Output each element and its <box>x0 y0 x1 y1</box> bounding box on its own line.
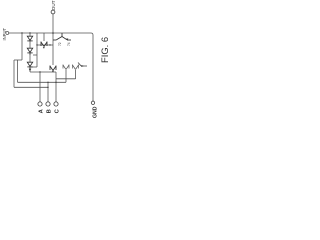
wire x=75.5 stem <box>75 70 77 79</box>
node dot (48,87) <box>47 87 48 88</box>
wire y=45 link <box>37 44 53 46</box>
node IN terminal circle <box>6 32 9 35</box>
svg-text:INPUT: INPUT <box>2 27 7 40</box>
diode D1 <box>27 36 32 41</box>
wire Q2 stem <box>43 33 45 41</box>
node dot (53,33) <box>52 32 54 34</box>
node OUT terminal circle <box>51 10 55 14</box>
wire OUT vertical x=53 <box>52 14 54 65</box>
svg-text:C: C <box>55 108 61 113</box>
wire terminal A vertical <box>39 72 41 102</box>
wire GND lead into circle <box>92 100 94 101</box>
svg-text:B: B <box>47 109 53 113</box>
transistor Q2 <box>41 42 47 49</box>
transistor Q4 on OUT line <box>50 66 56 73</box>
node terminal A circle <box>38 102 42 106</box>
wire top bus y=33 to right rail corner <box>37 33 93 35</box>
wire bus y=72 <box>30 71 56 73</box>
wire diode column stem d <box>29 69 31 72</box>
wire x=66 stem <box>65 70 67 82</box>
node terminal B circle <box>46 102 50 106</box>
svg-text:GND: GND <box>93 106 99 118</box>
wire branch x=22 down <box>21 33 23 60</box>
wire y=67 tick <box>31 66 37 68</box>
transistor Q6 <box>73 65 79 70</box>
node dot (22,33) <box>21 32 22 33</box>
wire bus y=87 <box>14 86 48 88</box>
wire diode column stem a <box>29 33 31 36</box>
transistor Q1 <box>27 62 32 71</box>
transistor Q3 top center <box>53 33 71 41</box>
wire x=37 branch down <box>36 33 38 67</box>
node GND terminal circle <box>91 101 94 104</box>
diode D2 <box>27 48 32 55</box>
node dot (30,33) <box>29 32 30 33</box>
svg-text:OUT: OUT <box>51 0 56 10</box>
wire y=79 link <box>56 78 76 80</box>
node dot (40,72) <box>39 71 40 72</box>
wire bus y=82 <box>18 81 67 83</box>
wire x=14 down <box>13 60 15 87</box>
node dot (50,45) <box>49 44 50 45</box>
svg-text:74: 74 <box>67 42 71 46</box>
wire right rail x=93 <box>92 35 94 101</box>
svg-text:72: 72 <box>58 42 62 46</box>
wire y=55 tick <box>33 54 37 56</box>
transistor Q5 <box>63 65 69 70</box>
wire terminal B vertical <box>47 82 49 101</box>
node dot (56,81) <box>55 82 56 83</box>
svg-text:A: A <box>39 108 45 113</box>
transistor Q7 emitter arrow <box>78 63 87 68</box>
wire terminal C vertical <box>55 72 57 102</box>
node dot (37,45) <box>36 44 37 45</box>
wire diode column stem b <box>29 41 31 48</box>
svg-text:FIG. 6: FIG. 6 <box>99 37 110 63</box>
wire y=60 segment <box>14 59 22 61</box>
wire input lead y=33 <box>9 32 37 34</box>
wire x=17 down <box>17 60 19 82</box>
junction dots <box>21 32 56 88</box>
node terminal C circle <box>54 102 58 106</box>
wire diode column stem c <box>29 55 31 62</box>
